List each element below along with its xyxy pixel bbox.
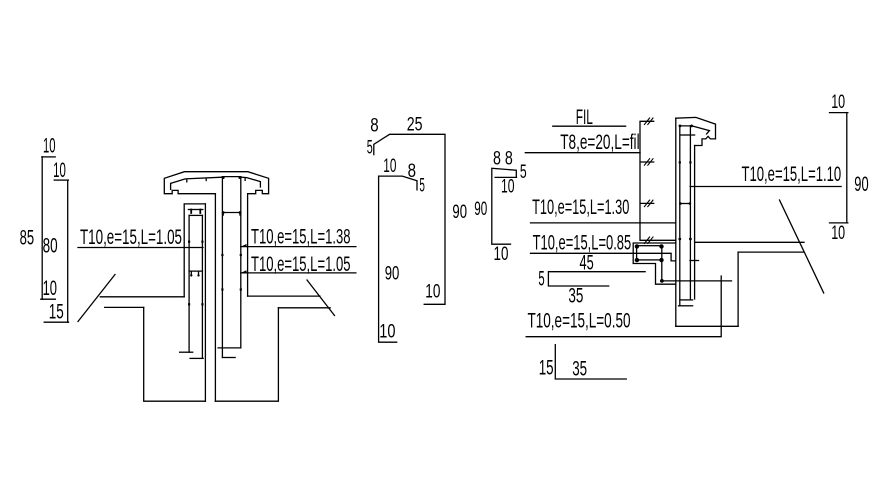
kicker block outline bbox=[633, 243, 676, 284]
wall A outline (left face + top) bbox=[184, 204, 205, 297]
coping inner liner left (hooked bar) bbox=[171, 177, 223, 189]
svg-text:5: 5 bbox=[419, 176, 425, 197]
svg-text:10: 10 bbox=[831, 92, 845, 113]
dim tick under 10 second bbox=[54, 179, 68, 181]
wall A rebar hook bar top bbox=[188, 209, 202, 211]
dim tick under 10 third bbox=[41, 298, 56, 300]
svg-text:35: 35 bbox=[568, 285, 583, 308]
wall rebar tick marks bbox=[679, 161, 681, 163]
coping seat ledge bbox=[681, 134, 695, 136]
wall A rebar mid bar with hooks bbox=[189, 271, 202, 275]
wall B rebar bottom hook bbox=[222, 357, 235, 359]
svg-text:15: 15 bbox=[539, 357, 554, 380]
svg-text:45: 45 bbox=[580, 252, 594, 275]
svg-text:15: 15 bbox=[49, 301, 64, 324]
bar shape S2 outline bbox=[379, 176, 417, 342]
kicker stirrup rectangle bbox=[637, 246, 662, 260]
wall B rebar top bar in coping bbox=[222, 176, 240, 178]
svg-text:10: 10 bbox=[379, 322, 395, 343]
wall B left face bbox=[214, 194, 216, 402]
wall A rebar bottom bar bbox=[190, 357, 203, 359]
bar shape S3 outline bbox=[492, 168, 517, 244]
svg-text:10: 10 bbox=[383, 156, 396, 177]
wall A rebar cage verticals bbox=[189, 215, 202, 358]
svg-text:90: 90 bbox=[385, 264, 400, 285]
wall right face bbox=[694, 146, 696, 300]
ground line right of wall bbox=[695, 241, 804, 243]
svg-text:35: 35 bbox=[572, 358, 587, 381]
right dim ladder tick bottom bbox=[830, 222, 848, 224]
footing dowel bar at 281 bbox=[662, 280, 732, 282]
svg-text:5: 5 bbox=[367, 138, 373, 159]
svg-text:8 8: 8 8 bbox=[493, 149, 513, 170]
wall B rebar tick marks bbox=[221, 254, 223, 256]
footing top right bbox=[738, 251, 803, 253]
leader for 1.30 bbox=[531, 222, 676, 224]
bar shape S4 outline bbox=[548, 272, 645, 286]
bar shape S5 outline bbox=[555, 345, 626, 379]
break line right bbox=[307, 280, 335, 316]
wall B rebar bottom bar bbox=[218, 347, 241, 349]
ground line upper left bbox=[100, 296, 184, 298]
svg-text:T10,e=15,L=1.05: T10,e=15,L=1.05 bbox=[80, 226, 182, 249]
footing pocket left bbox=[144, 307, 206, 401]
dowel vertical leg bbox=[661, 260, 663, 281]
break line left bbox=[78, 275, 115, 322]
leader for 0.50 with riser bbox=[526, 276, 721, 337]
footing right face bbox=[737, 252, 739, 326]
svg-text:8: 8 bbox=[408, 161, 416, 182]
wall B right face (to ground) bbox=[247, 194, 249, 296]
svg-text:10: 10 bbox=[43, 135, 56, 158]
FIL underline bbox=[553, 125, 626, 127]
break diagonal bbox=[780, 200, 824, 293]
wall A rebar tick marks bbox=[188, 241, 190, 243]
wall right face tick bbox=[690, 260, 699, 262]
ground line lower left bbox=[105, 306, 144, 308]
svg-text:10: 10 bbox=[831, 223, 845, 244]
svg-text:90: 90 bbox=[452, 202, 467, 223]
svg-text:T10,e=15,L=1.38: T10,e=15,L=1.38 bbox=[251, 226, 351, 249]
svg-text:90: 90 bbox=[854, 173, 868, 196]
T8 label underline/leader bbox=[525, 152, 640, 154]
wall B rebar verticals bbox=[222, 177, 240, 358]
footing pocket right bbox=[215, 308, 278, 401]
leader for 0.85 merging into footing step bbox=[531, 253, 676, 261]
svg-text:10: 10 bbox=[501, 177, 515, 198]
coping outline bbox=[676, 117, 716, 145]
dim extension line (left, 85 run) bbox=[41, 157, 43, 299]
dim extension line (right, to 15) bbox=[67, 180, 69, 322]
svg-text:T10,e=15,L=1.30: T10,e=15,L=1.30 bbox=[532, 196, 629, 219]
svg-text:5: 5 bbox=[520, 162, 527, 183]
bar break marks (double slashes) bbox=[644, 118, 653, 244]
right dim ladder line bbox=[846, 113, 848, 223]
coping inner rebar bar bbox=[679, 126, 709, 134]
dim tick under 10 top bbox=[42, 156, 55, 158]
svg-text:T10,e=15,L=0.50: T10,e=15,L=0.50 bbox=[528, 310, 631, 333]
bar shape S1 outline bbox=[374, 134, 445, 304]
svg-text:85: 85 bbox=[20, 227, 34, 250]
wall rebar bottom bar bbox=[680, 299, 693, 301]
ground line lower right bbox=[278, 307, 330, 309]
footing bottom bbox=[676, 325, 738, 327]
svg-text:10: 10 bbox=[494, 244, 509, 265]
svg-text:10: 10 bbox=[425, 281, 440, 302]
coping outline bbox=[164, 172, 268, 194]
leader for right 1.05 label bbox=[241, 272, 356, 274]
leader for 1.38 label bbox=[241, 246, 356, 248]
ground line upper right bbox=[248, 295, 320, 297]
leader for left label bbox=[78, 247, 203, 249]
svg-text:80: 80 bbox=[43, 235, 58, 258]
svg-text:T8,e=20,L=fil: T8,e=20,L=fil bbox=[560, 131, 639, 154]
wall rebar bottom hook bbox=[679, 305, 693, 307]
collector leader line bbox=[640, 121, 676, 240]
svg-text:25: 25 bbox=[407, 115, 423, 136]
svg-text:8: 8 bbox=[370, 116, 378, 137]
right dim ladder tick top bbox=[830, 112, 848, 114]
wall left face bbox=[675, 118, 677, 326]
svg-text:10: 10 bbox=[43, 277, 57, 300]
wall A rebar cage top bbox=[189, 214, 202, 216]
wall rebar verticals bbox=[680, 126, 691, 306]
coping inner liner right (hooked bar) bbox=[241, 177, 261, 187]
leader for 1.10 bbox=[690, 186, 841, 188]
svg-text:5: 5 bbox=[538, 268, 544, 291]
svg-text:90: 90 bbox=[474, 199, 487, 220]
dim tick under 15 bbox=[44, 321, 68, 323]
svg-text:T10,e=15,L=1.10: T10,e=15,L=1.10 bbox=[742, 163, 842, 186]
svg-text:10: 10 bbox=[53, 159, 66, 182]
wall B rebar stirrup bar bbox=[222, 213, 240, 216]
wall A rebar bottom hook tick bbox=[180, 351, 193, 353]
wall A right face (down to footing) bbox=[204, 204, 206, 401]
